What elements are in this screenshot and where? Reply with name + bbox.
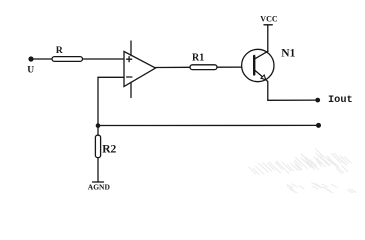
svg-text:R: R [56, 45, 64, 56]
node U [28, 56, 33, 61]
wire op-amp output to R1 [156, 66, 191, 68]
node Iout [315, 98, 320, 103]
wire emitter to Iout [268, 99, 318, 101]
svg-text:AGND: AGND [88, 182, 111, 191]
svg-text:R2: R2 [102, 144, 116, 156]
resistor R1 [190, 65, 217, 70]
wire bottom horizontal [98, 124, 319, 126]
wire emitter down [267, 82, 269, 101]
op-amp bottom power pin [130, 82, 132, 97]
svg-text:N1: N1 [281, 48, 295, 60]
svg-text:Iout: Iout [328, 94, 353, 106]
wire inverting input [98, 76, 124, 78]
wire feedback vertical [97, 77, 99, 135]
svg-text:R1: R1 [192, 53, 204, 64]
svg-text:U: U [27, 66, 34, 76]
svg-text:VCC: VCC [260, 15, 278, 24]
node bottom right [316, 123, 321, 128]
op-amp minus input mark [127, 76, 132, 78]
watermark [249, 149, 357, 194]
transistor N1 [242, 49, 274, 81]
resistor R2 [95, 135, 100, 157]
wire collector to VCC [267, 26, 269, 52]
op-amp top power pin [130, 41, 132, 56]
op-amp U1 [124, 52, 156, 87]
wire R1 to base [217, 66, 253, 68]
resistor R [52, 57, 83, 62]
node junction [96, 123, 101, 128]
wire R to op-amp [83, 58, 125, 60]
wire U to R [34, 58, 53, 60]
op-amp plus input mark [127, 57, 132, 62]
wire R2 to ground [97, 158, 99, 182]
ground AGND [93, 181, 104, 183]
